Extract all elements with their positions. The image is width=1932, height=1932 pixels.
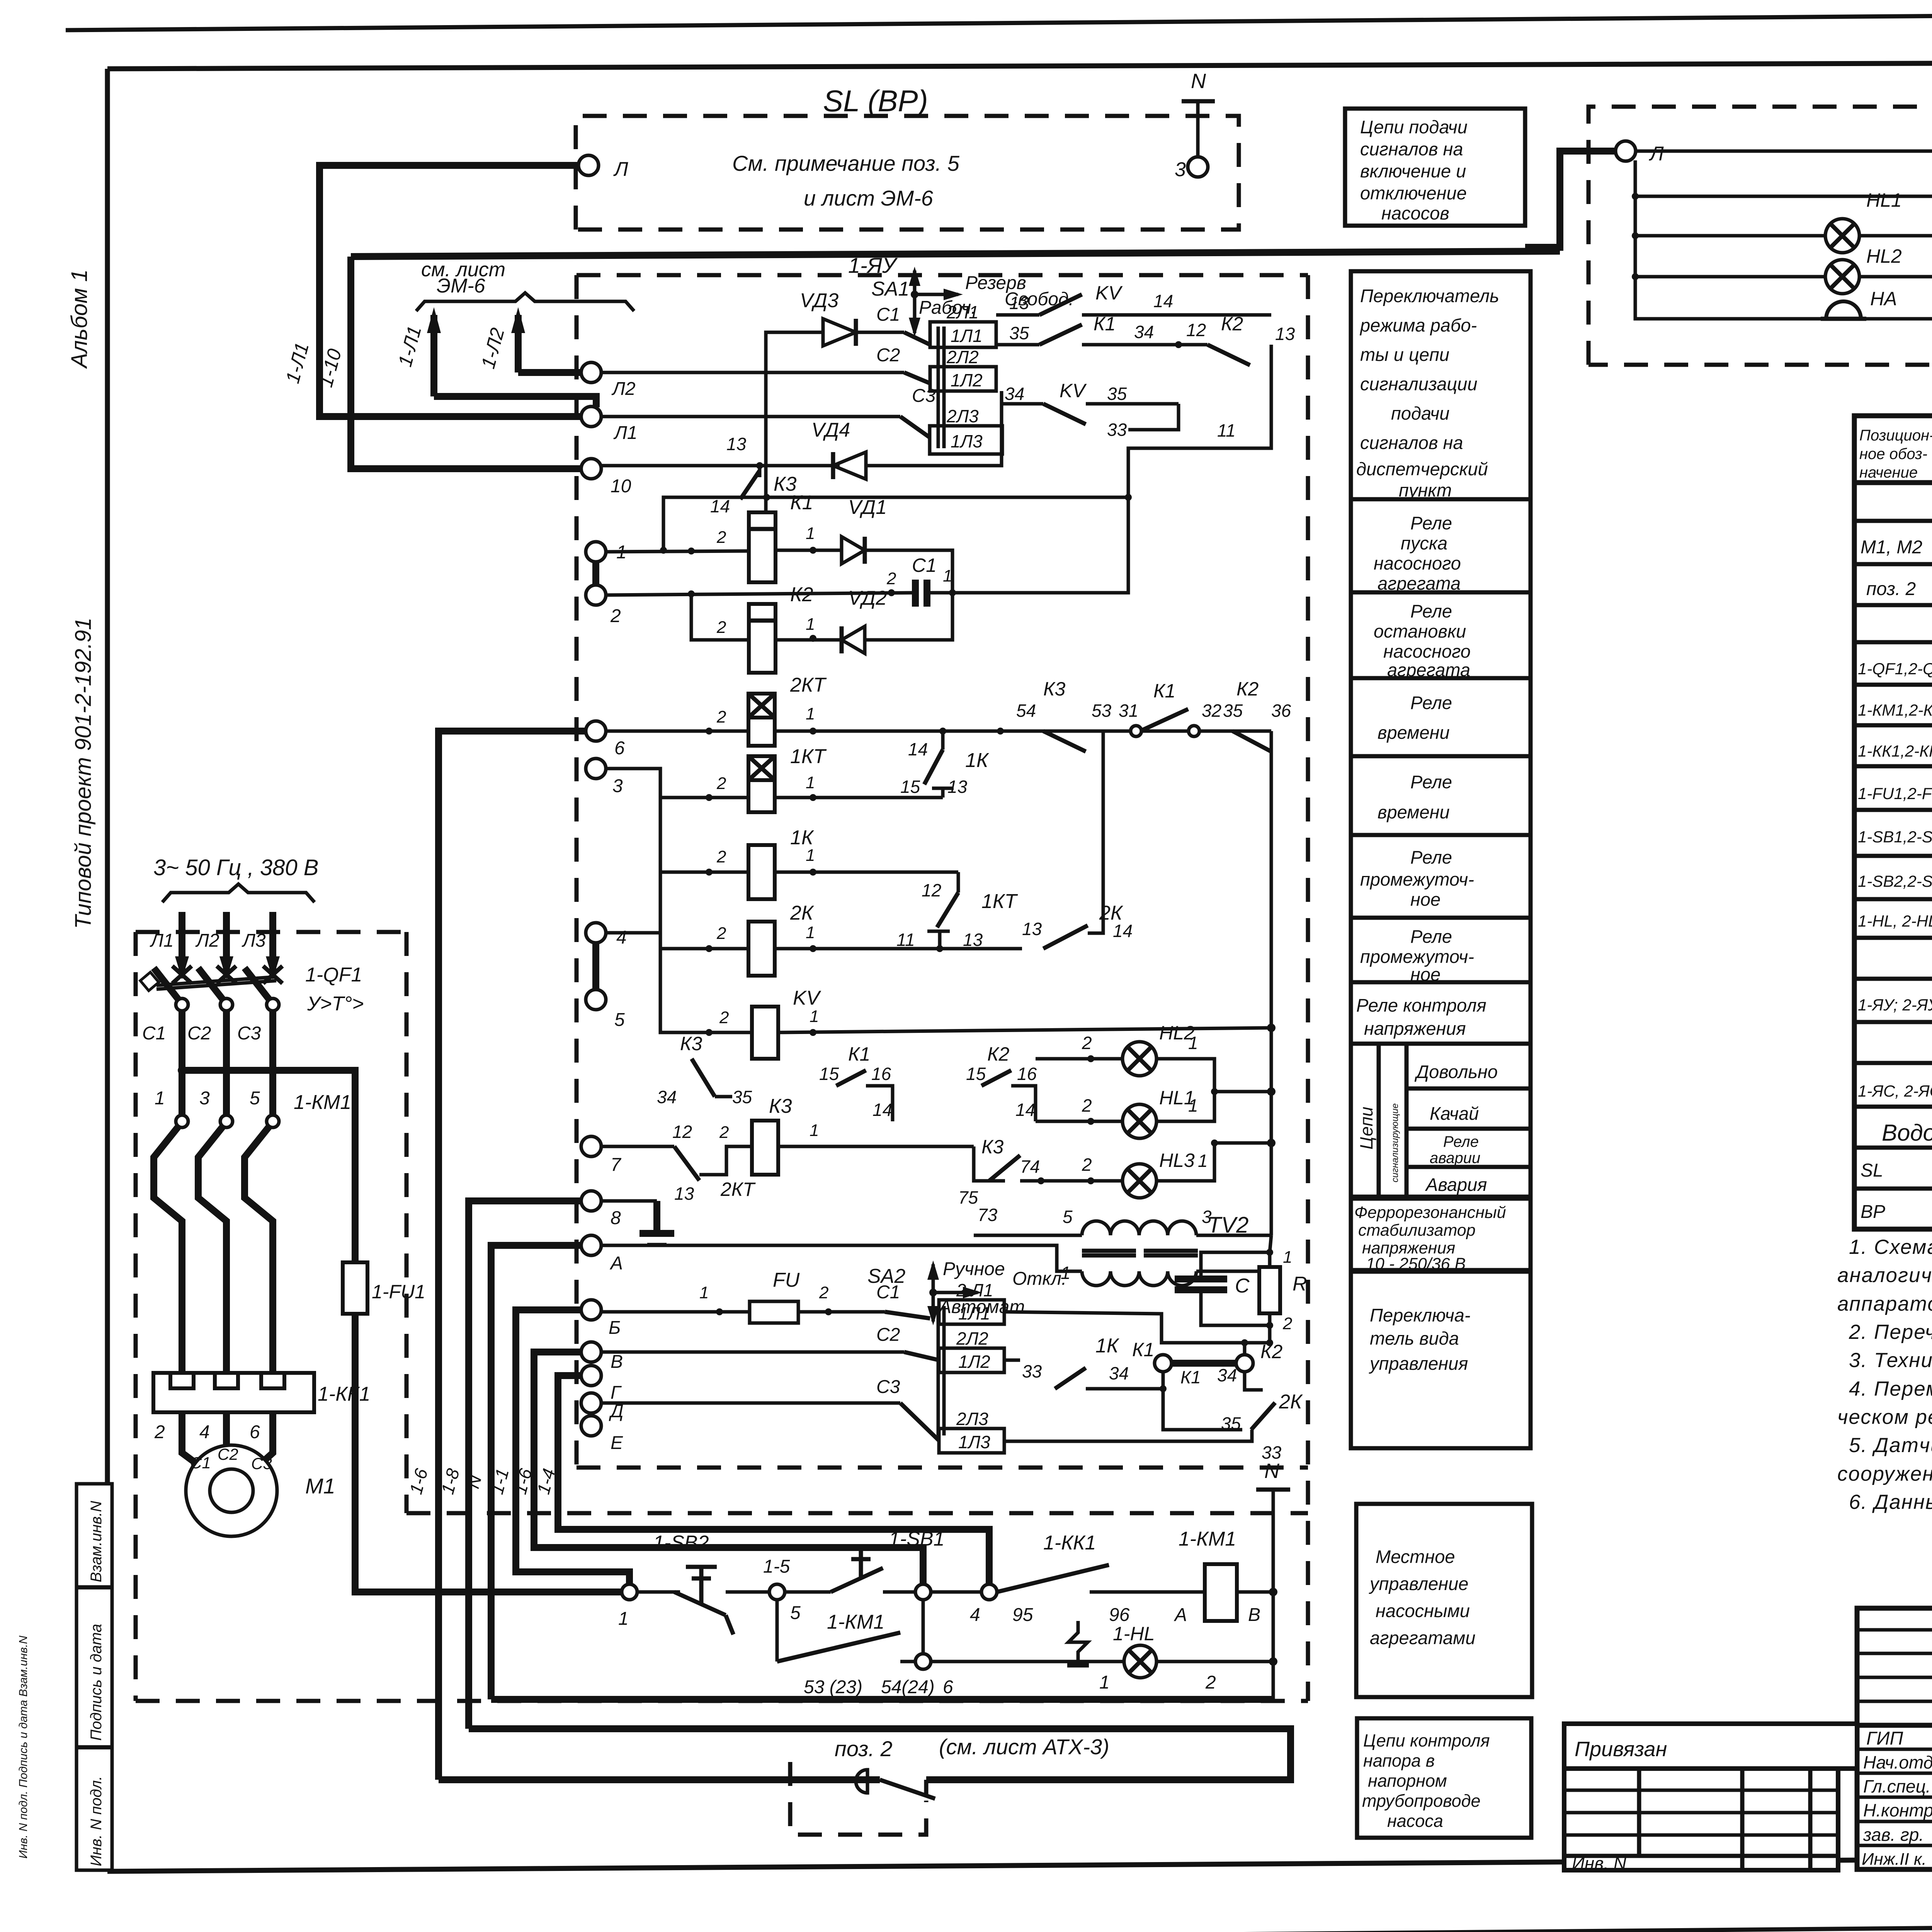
svg-text:11: 11 [896, 930, 915, 950]
svg-text:Реле: Реле [1410, 847, 1452, 867]
1-YaU control cell dashed box [577, 253, 1308, 1701]
svg-text:1Л1: 1Л1 [958, 1303, 990, 1323]
diode VD2 [842, 587, 887, 653]
svg-text:35: 35 [732, 1087, 752, 1107]
svg-text:SL: SL [1861, 1160, 1883, 1181]
svg-text:1: 1 [1283, 1248, 1292, 1267]
svg-text:FU: FU [773, 1269, 800, 1291]
svg-text:1-HL: 1-HL [1113, 1623, 1155, 1645]
rail HL2 [1635, 275, 1932, 279]
svg-text:насосными: насосными [1376, 1600, 1470, 1621]
svg-text:Реле: Реле [1443, 1133, 1479, 1150]
svg-text:Цепи контроля: Цепи контроля [1363, 1731, 1490, 1750]
svg-text:35: 35 [1009, 323, 1029, 343]
terminal E [581, 1416, 601, 1436]
wires KM to KK [154, 1182, 273, 1373]
svg-text:12: 12 [922, 880, 941, 900]
svg-text:1: 1 [806, 923, 815, 942]
svg-text:диспетчерский: диспетчерский [1356, 459, 1488, 479]
svg-text:поз. 2: поз. 2 [1866, 579, 1916, 599]
svg-text:агрегата: агрегата [1387, 660, 1470, 680]
svg-text:К1: К1 [1153, 680, 1175, 702]
svg-text:2: 2 [886, 569, 896, 588]
branch to fuse FU1 [182, 1070, 355, 1262]
svg-text:Инв. N: Инв. N [1572, 1853, 1627, 1873]
svg-text:В: В [1248, 1605, 1260, 1625]
svg-text:5. Датчик уровня выбирается: 5. Датчик уровня выбирается в зависимост… [1849, 1434, 1932, 1457]
svg-text:31: 31 [1119, 701, 1138, 721]
svg-text:Л2: Л2 [611, 379, 636, 399]
svg-text:поз. 2: поз. 2 [835, 1736, 893, 1761]
svg-text:54(24): 54(24) [881, 1677, 935, 1697]
vertical junction line below L [1634, 160, 1637, 317]
node 5 [769, 1584, 785, 1600]
svg-text:Переключа-: Переключа- [1370, 1305, 1471, 1325]
svg-text:2. Перечень аппаратуры соста: 2. Перечень аппаратуры составлен для дву… [1849, 1321, 1932, 1344]
svg-text:73: 73 [978, 1205, 998, 1225]
motor feeder: supply label [153, 855, 319, 902]
terminal L1 [581, 406, 601, 427]
svg-text:10 - 250/36 В: 10 - 250/36 В [1366, 1255, 1466, 1273]
dashed sensor box [790, 1762, 926, 1835]
svg-text:Взам.инв.N: Взам.инв.N [88, 1501, 105, 1582]
svg-text:2: 2 [1082, 1095, 1092, 1116]
upper contact rows right of field [996, 282, 1295, 497]
svg-text:14: 14 [1113, 921, 1133, 941]
top rail with contact K 31-32 [1635, 150, 1932, 153]
svg-text:1: 1 [1099, 1672, 1110, 1693]
svg-text:Цепи: Цепи [1356, 1107, 1376, 1150]
svg-text:15: 15 [900, 777, 920, 797]
svg-text:34: 34 [1217, 1365, 1237, 1385]
svg-text:сигнализирующие: сигнализирующие [1390, 1103, 1400, 1182]
pressure control loop poz.2 [439, 1729, 1291, 1835]
box2 right wire with contact 1K [1004, 1335, 1167, 1392]
svg-text:напорном: напорном [1368, 1771, 1447, 1791]
svg-text:промежуточ-: промежуточ- [1360, 869, 1474, 889]
svg-text:5: 5 [1063, 1207, 1073, 1227]
svg-text:4: 4 [616, 927, 627, 948]
fuse output down to control rail [355, 1314, 629, 1592]
svg-text:трубопроводе: трубопроводе [1362, 1791, 1481, 1811]
svg-text:1: 1 [943, 566, 952, 585]
svg-text:13: 13 [1022, 919, 1042, 939]
svg-text:1Л1: 1Л1 [951, 326, 983, 346]
svg-text:1-КК1,2-КК1: 1-КК1,2-КК1 [1858, 742, 1932, 760]
svg-text:2: 2 [1082, 1033, 1092, 1053]
svg-text:Инж.II к.: Инж.II к. [1862, 1850, 1927, 1869]
svg-text:Г: Г [611, 1383, 622, 1403]
svg-text:К1: К1 [1094, 313, 1116, 335]
fuse 1-FU1 [343, 1262, 425, 1314]
time relay 2KT coil [716, 674, 827, 746]
1-YaS signalling cell [1525, 57, 1932, 365]
svg-text:1: 1 [810, 1121, 819, 1140]
svg-text:35: 35 [1223, 701, 1243, 721]
svg-text:С: С [1235, 1275, 1250, 1297]
button 1-SB1 start [785, 1590, 831, 1594]
svg-text:3: 3 [1175, 158, 1186, 181]
svg-text:1-SB2: 1-SB2 [653, 1532, 709, 1554]
svg-text:Л: Л [1649, 143, 1664, 165]
SA2 blade C1 into field [885, 1312, 930, 1318]
right vertical rail of 1-YaU [1270, 731, 1273, 1235]
svg-text:К3: К3 [1043, 678, 1065, 700]
svg-text:2: 2 [1082, 1155, 1092, 1175]
svg-text:Инв. N подл. Подпись и дата: Инв. N подл. Подпись и дата Взам.инв.N [17, 1636, 30, 1859]
svg-text:Реле контроля: Реле контроля [1356, 995, 1486, 1015]
svg-text:Реле: Реле [1410, 601, 1452, 621]
svg-text:1-КМ1,2-КМ1: 1-КМ1,2-КМ1 [1858, 701, 1932, 719]
svg-text:75: 75 [958, 1187, 978, 1207]
svg-text:33: 33 [1022, 1361, 1042, 1381]
svg-text:Авария: Авария [1425, 1174, 1487, 1195]
svg-text:2: 2 [719, 1008, 729, 1027]
terminal 10 [581, 459, 601, 479]
terminal G [581, 1366, 601, 1386]
svg-text:К1: К1 [1180, 1367, 1201, 1387]
svg-text:1Л3: 1Л3 [958, 1432, 990, 1452]
svg-text:1Л2: 1Л2 [951, 370, 983, 390]
terminal V [581, 1342, 601, 1362]
svg-text:С1: С1 [142, 1023, 166, 1044]
lamp HL3 [958, 1136, 1276, 1225]
svg-text:1-КМ1: 1-КМ1 [294, 1091, 351, 1114]
svg-text:3. Технические данные электр: 3. Технические данные электрооборудовани… [1849, 1349, 1932, 1372]
relay K3 coil [719, 1095, 819, 1175]
svg-text:5: 5 [250, 1088, 260, 1109]
K3 return rail [663, 497, 1128, 550]
1KT rail [606, 769, 748, 798]
svg-text:2КТ: 2КТ [720, 1179, 756, 1200]
svg-text:управления: управления [1369, 1353, 1468, 1374]
relay 1K coil [716, 827, 815, 899]
svg-text:2К: 2К [790, 902, 815, 924]
svg-text:С3: С3 [237, 1023, 261, 1044]
phase drop wires L1 L2 L3 [150, 912, 280, 980]
svg-text:стабилизатор: стабилизатор [1358, 1221, 1476, 1240]
SL (VR) sensor box [576, 70, 1239, 230]
svg-text:К1: К1 [848, 1043, 870, 1065]
svg-text:К1: К1 [1132, 1339, 1154, 1361]
svg-text:Инв. N подл.: Инв. N подл. [88, 1776, 105, 1866]
net 1-8 from terminal 8 [469, 1201, 581, 1729]
svg-text:2К: 2К [1279, 1391, 1303, 1413]
svg-text:N: N [1191, 70, 1206, 93]
svg-text:1: 1 [806, 524, 815, 543]
svg-text:Феррорезонансный: Феррорезонансный [1354, 1203, 1506, 1222]
svg-text:2Л3: 2Л3 [946, 406, 979, 426]
svg-text:М1, М2: М1, М2 [1861, 537, 1922, 558]
svg-text:2: 2 [716, 847, 726, 866]
svg-text:34: 34 [1005, 384, 1024, 404]
svg-text:34: 34 [1109, 1363, 1129, 1383]
svg-text:54: 54 [1016, 701, 1036, 721]
diode VD1 [842, 496, 887, 564]
row 2 wire to capacitor [606, 593, 915, 595]
svg-text:сигнализации: сигнализации [1360, 374, 1478, 394]
signal sub-box [1354, 1044, 1531, 1831]
svg-text:1-ЯУ; 2-ЯУ: 1-ЯУ; 2-ЯУ [1858, 996, 1932, 1014]
svg-text:Местное: Местное [1376, 1546, 1455, 1567]
svg-text:14: 14 [908, 739, 928, 759]
svg-text:и лист ЭМ-6: и лист ЭМ-6 [804, 186, 934, 210]
svg-text:ЭМ-6: ЭМ-6 [437, 275, 485, 297]
svg-text:аварии: аварии [1430, 1150, 1480, 1167]
svg-text:С2: С2 [876, 345, 900, 366]
svg-text:2: 2 [819, 1283, 828, 1302]
svg-text:Водонапорная башня(резервуар): Водонапорная башня(резервуар) или напорн… [1882, 1120, 1932, 1146]
svg-text:VД2: VД2 [848, 587, 887, 609]
svg-text:15: 15 [966, 1064, 986, 1084]
svg-text:ты и цепи: ты и цепи [1360, 344, 1449, 365]
contact field boxes [930, 302, 1002, 454]
paper bottom edge line + specks [90, 1921, 1932, 1932]
svg-text:1-QF1,2-QF1: 1-QF1,2-QF1 [1858, 660, 1932, 678]
terminal 8 ground symbol [601, 1201, 674, 1245]
svg-text:KV: KV [1060, 380, 1087, 401]
terminal A wire to TV2 secondary [601, 1245, 1082, 1271]
net 1-6 from terminal 6 [439, 731, 586, 1780]
svg-text:Реле: Реле [1410, 926, 1452, 947]
thermal relay 1-KK1 heater box [153, 1373, 370, 1412]
svg-text:2Л2: 2Л2 [946, 347, 979, 367]
svg-text:14: 14 [1015, 1100, 1035, 1120]
svg-text:4: 4 [199, 1422, 210, 1442]
svg-text:1-SB2,2-SB2: 1-SB2,2-SB2 [1858, 872, 1932, 890]
svg-text:R: R [1293, 1273, 1307, 1295]
svg-text:агрегатами: агрегатами [1370, 1628, 1476, 1648]
svg-text:Л3: Л3 [241, 930, 266, 951]
svg-text:остановки: остановки [1374, 621, 1466, 641]
svg-text:Довольно: Довольно [1414, 1061, 1498, 1082]
svg-text:Л1: Л1 [150, 930, 174, 951]
svg-text:Типовой проект 901-2-192.91: Типовой проект 901-2-192.91 [71, 617, 96, 929]
svg-text:Реле: Реле [1410, 692, 1452, 713]
svg-text:10: 10 [611, 476, 631, 497]
svg-text:14: 14 [1153, 291, 1173, 311]
terminal 3 [586, 759, 606, 779]
svg-text:HL1: HL1 [1866, 189, 1902, 211]
wire from left into L [1525, 151, 1616, 247]
svg-text:34: 34 [657, 1087, 677, 1107]
cabinet Sh dashed enclosure [136, 932, 1308, 1701]
wire from SL terminal L down to L1 [320, 165, 586, 417]
svg-text:1Л2: 1Л2 [958, 1352, 990, 1372]
svg-text:К3: К3 [769, 1095, 792, 1117]
svg-text:К2: К2 [1221, 313, 1243, 335]
signature rows [1857, 1723, 1932, 1728]
net 1-1 from terminal B [516, 1310, 629, 1584]
K2 row wire [691, 594, 749, 640]
svg-text:У>Т°>: У>Т°> [307, 993, 364, 1015]
svg-text:1-FU1: 1-FU1 [372, 1281, 425, 1303]
resistor R [1259, 1248, 1307, 1343]
privyazan table [1564, 1724, 1857, 1873]
svg-text:времени: времени [1378, 722, 1450, 743]
svg-text:С3: С3 [251, 1454, 272, 1473]
svg-text:времени: времени [1378, 802, 1450, 822]
svg-text:ГИП: ГИП [1866, 1728, 1903, 1749]
svg-text:К2: К2 [987, 1043, 1009, 1065]
wire net 1-10: terminal 10 tee from signal line [351, 257, 586, 469]
svg-text:2Л3: 2Л3 [956, 1409, 988, 1429]
svg-text:Альбом 1: Альбом 1 [67, 269, 92, 369]
lamp HL2 [1036, 1022, 1276, 1096]
see sheet EM-6 arrows [394, 259, 634, 407]
terminal 7 wire with 2KT contact [601, 1122, 974, 1204]
svg-text:Подпись и дата: Подпись и дата [88, 1624, 105, 1741]
svg-text:13: 13 [726, 434, 747, 454]
svg-text:(см. лист АТХ-3): (см. лист АТХ-3) [939, 1735, 1109, 1759]
svg-text:N: N [1264, 1459, 1280, 1483]
thermal trip symbol [1068, 1621, 1088, 1663]
svg-text:13: 13 [1009, 293, 1029, 313]
wire 10 row with VD4 [601, 464, 840, 468]
svg-text:2: 2 [716, 707, 726, 726]
lamp HL2 [1825, 245, 1902, 294]
dashed box 1-YaS [1588, 107, 1932, 365]
svg-text:16: 16 [1017, 1064, 1037, 1084]
svg-text:12: 12 [1186, 320, 1206, 340]
circuit breaker 1-QF1 [140, 964, 364, 1015]
svg-text:1КТ: 1КТ [981, 890, 1018, 913]
svg-text:KV: KV [1095, 282, 1123, 304]
svg-text:М1: М1 [305, 1474, 335, 1498]
svg-text:36: 36 [1271, 701, 1291, 721]
svg-text:режима рабо-: режима рабо- [1359, 315, 1477, 335]
SA2 wiper double line [937, 1306, 940, 1435]
svg-text:7: 7 [611, 1155, 622, 1175]
svg-text:1-SB1,2-SB1: 1-SB1,2-SB1 [1858, 828, 1932, 846]
svg-text:1: 1 [618, 1609, 629, 1629]
svg-text:34: 34 [1134, 322, 1154, 342]
svg-text:2: 2 [716, 618, 726, 637]
svg-text:5: 5 [790, 1603, 801, 1623]
terminal D [581, 1393, 601, 1413]
terminal 2 [586, 585, 606, 605]
svg-text:сигналов на: сигналов на [1360, 432, 1463, 453]
svg-text:К2: К2 [1236, 678, 1259, 700]
svg-text:Качай: Качай [1430, 1103, 1479, 1124]
thin upper rows [1857, 1628, 1932, 1632]
svg-text:включение и: включение и [1360, 161, 1466, 181]
wires QF to KM [178, 1011, 273, 1115]
relay 2K coil [716, 902, 815, 976]
svg-text:К3: К3 [680, 1033, 702, 1054]
svg-text:1-КК1: 1-КК1 [1043, 1532, 1096, 1554]
capacitor C1 [886, 554, 952, 607]
diode VD4 [811, 419, 866, 479]
svg-text:Л2: Л2 [195, 930, 219, 951]
svg-text:KV: KV [793, 987, 821, 1009]
terminal A [581, 1235, 601, 1255]
svg-text:Нач.отд.: Нач.отд. [1863, 1752, 1932, 1772]
svg-text:Переключатель: Переключатель [1360, 286, 1499, 306]
svg-text:SL (ВР): SL (ВР) [823, 84, 928, 118]
svg-text:пуска: пуска [1401, 533, 1447, 553]
transformer TV2 [974, 1207, 1271, 1286]
svg-text:Цепи подачи: Цепи подачи [1360, 117, 1468, 137]
svg-text:агрегата: агрегата [1378, 573, 1461, 594]
svg-text:13: 13 [674, 1184, 694, 1204]
switch SA2 [867, 1259, 1066, 1325]
svg-text:насоса: насоса [1387, 1811, 1443, 1831]
long signal wire to 1-YaS [351, 251, 1560, 257]
svg-text:С1: С1 [912, 554, 937, 576]
svg-text:К1: К1 [790, 492, 813, 514]
svg-text:Реле: Реле [1410, 772, 1452, 792]
svg-text:32: 32 [1202, 701, 1221, 721]
svg-text:33: 33 [1107, 420, 1127, 440]
svg-text:тель вида: тель вида [1370, 1328, 1459, 1349]
svg-text:4: 4 [970, 1605, 980, 1625]
2KT rail [606, 730, 748, 733]
svg-text:сооружений водоснабжения.: сооружений водоснабжения. [1837, 1463, 1932, 1485]
svg-text:1-QF1: 1-QF1 [305, 964, 362, 986]
svg-text:К3: К3 [981, 1136, 1003, 1158]
svg-text:1. Схема составлена для нас: 1. Схема составлена для насоса №1. Для н… [1849, 1236, 1932, 1259]
svg-text:отключение: отключение [1360, 183, 1467, 203]
relay K1 with coil [716, 492, 815, 582]
svg-text:управление: управление [1369, 1573, 1468, 1594]
svg-text:1-FU1,2-FU1: 1-FU1,2-FU1 [1858, 784, 1932, 803]
svg-text:1: 1 [806, 773, 815, 792]
terminals on 1-YaU left edge [581, 362, 638, 1453]
svg-text:11: 11 [1217, 420, 1236, 440]
cap to upper field wire [952, 497, 1128, 593]
svg-text:начение: начение [1859, 464, 1918, 481]
terminal L of SL [578, 155, 599, 175]
svg-text:2Л1: 2Л1 [946, 302, 979, 322]
SA1 blade C1 [904, 332, 930, 345]
auxiliary contact 1-KM1 [776, 1600, 779, 1662]
svg-text:ВР: ВР [1861, 1202, 1885, 1222]
wire L2 row into field [601, 371, 904, 374]
relay KV coil [719, 987, 821, 1059]
svg-text:НА: НА [1870, 288, 1897, 310]
svg-text:6: 6 [250, 1422, 260, 1442]
svg-text:53 (23): 53 (23) [804, 1677, 862, 1697]
svg-text:С3: С3 [912, 386, 936, 406]
return wire N [491, 1696, 1273, 1703]
svg-text:5: 5 [614, 1010, 625, 1030]
svg-text:VД1: VД1 [848, 496, 887, 519]
svg-text:2: 2 [1205, 1672, 1216, 1693]
svg-text:6: 6 [614, 738, 625, 759]
svg-text:1: 1 [1198, 1151, 1208, 1171]
element list table [1854, 373, 1932, 1229]
rail HA with bell [1635, 317, 1824, 319]
capacitor C of stabilizer [1175, 1252, 1270, 1325]
svg-text:Ручное: Ручное [943, 1259, 1005, 1279]
1K rail [660, 769, 748, 872]
svg-text:В: В [611, 1352, 623, 1372]
jumper 4-5 [592, 943, 599, 990]
center column text boxes [1345, 109, 1532, 1838]
svg-text:1: 1 [155, 1088, 165, 1109]
svg-text:подачи: подачи [1391, 403, 1449, 423]
svg-text:1-ЯС, 2-ЯС: 1-ЯС, 2-ЯС [1858, 1082, 1932, 1100]
contact 1KT below 1K rail [896, 872, 1018, 950]
N symbol bottom [1272, 1490, 1275, 1699]
svg-text:1КТ: 1КТ [790, 745, 827, 768]
svg-text:зав. гр.: зав. гр. [1863, 1825, 1924, 1845]
terminal 3 of SL with N [1188, 157, 1208, 177]
wires KK to motor [182, 1412, 273, 1468]
svg-text:1: 1 [806, 615, 815, 634]
svg-text:3~ 50 Гц , 380 В: 3~ 50 Гц , 380 В [153, 855, 319, 880]
